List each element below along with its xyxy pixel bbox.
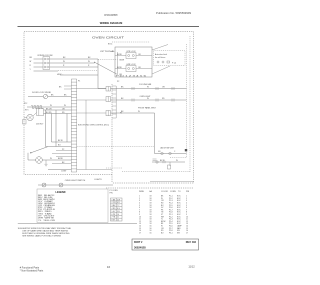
svg-text:LIGHTS: LIGHTS xyxy=(94,179,102,181)
svg-text:OVEN CIRCUIT: OVEN CIRCUIT xyxy=(92,35,124,39)
svg-text:W: W xyxy=(30,61,32,63)
svg-text:BK/W: BK/W xyxy=(117,67,122,69)
svg-text:BK/W: BK/W xyxy=(120,59,125,61)
svg-text:OVEN LIGHT SWITCH: OVEN LIGHT SWITCH xyxy=(65,180,86,182)
svg-text:P1: P1 xyxy=(120,113,122,115)
svg-text:PART #: PART # xyxy=(134,241,143,244)
svg-text:P1: P1 xyxy=(78,81,80,83)
svg-text:LWR LOCK: LWR LOCK xyxy=(126,64,136,66)
svg-text:DLB RLY: DLB RLY xyxy=(36,124,44,126)
svg-text:W: W xyxy=(138,111,140,113)
svg-text:BK/W: BK/W xyxy=(58,158,63,160)
svg-text:RY1: RY1 xyxy=(25,110,28,112)
svg-text:LEGEND: LEGEND xyxy=(56,191,66,194)
svg-text:P3-1: P3-1 xyxy=(169,232,173,234)
svg-text:5 W: 5 W xyxy=(117,199,120,201)
svg-text:W: W xyxy=(63,61,65,63)
svg-text:8 VT: 8 VT xyxy=(112,220,116,222)
svg-text:W: W xyxy=(50,105,52,107)
svg-text:INTERLOCK SW: INTERLOCK SW xyxy=(38,55,53,57)
svg-text:BK W: BK W xyxy=(58,140,63,142)
svg-text:OPTIONAL: OPTIONAL xyxy=(100,50,115,53)
svg-text:UPR LOCK: UPR LOCK xyxy=(126,51,136,53)
svg-text:EOC: EOC xyxy=(108,44,113,46)
svg-text:WIRING DIAGRAM: WIRING DIAGRAM xyxy=(100,21,123,25)
svg-text:DOOR LOCK SW BK: DOOR LOCK SW BK xyxy=(32,92,52,94)
svg-text:YL YELLOW: YL YELLOW xyxy=(38,220,55,222)
svg-text:LATCH SW UNIT: LATCH SW UNIT xyxy=(160,147,175,150)
svg-text:30024028: 30024028 xyxy=(134,245,146,249)
svg-text:12: 12 xyxy=(117,220,119,222)
svg-text:W: W xyxy=(147,98,149,100)
svg-text:11/12: 11/12 xyxy=(188,264,195,268)
svg-text:11: 11 xyxy=(117,217,119,219)
svg-text:WH WHITE: WH WHITE xyxy=(38,217,55,219)
svg-text:OVEN LIGHT: OVEN LIGHT xyxy=(140,96,152,98)
svg-text:SEE WIRING LABEL FOR EXACT WIR: SEE WIRING LABEL FOR EXACT WIRING xyxy=(22,235,61,238)
svg-text:COOLING FAN: COOLING FAN xyxy=(139,83,152,86)
svg-text:CONN: CONN xyxy=(170,191,176,193)
svg-text:BK OR: BK OR xyxy=(46,108,52,110)
svg-text:BK W: BK W xyxy=(160,160,165,162)
svg-text:P12: P12 xyxy=(24,103,27,105)
svg-text:COLOR: COLOR xyxy=(161,191,168,193)
svg-text:W: W xyxy=(147,87,149,89)
svg-text:17: 17 xyxy=(186,232,188,234)
svg-text:Publication No. 5995599999: Publication No. 5995599999 xyxy=(156,11,192,15)
svg-text:P2: P2 xyxy=(62,149,64,151)
svg-text:WIRE: WIRE xyxy=(139,191,145,193)
svg-text:W: W xyxy=(88,61,90,63)
svg-text:P2: P2 xyxy=(117,81,119,83)
svg-text:FPMC3085PF: FPMC3085PF xyxy=(104,13,118,17)
svg-text:W: W xyxy=(176,160,178,162)
svg-text:ELECTRONIC OVEN CONTROL (EOC): ELECTRONIC OVEN CONTROL (EOC) xyxy=(78,124,109,126)
svg-text:BK/W: BK/W xyxy=(117,54,122,56)
svg-text:17: 17 xyxy=(139,232,141,234)
svg-text:for self clean: for self clean xyxy=(155,57,165,59)
svg-text:W: W xyxy=(64,105,66,107)
svg-text:16: 16 xyxy=(107,265,111,269)
svg-text:CONV: CONV xyxy=(61,171,67,173)
svg-text:16: 16 xyxy=(150,232,152,234)
svg-text:REV: 302: REV: 302 xyxy=(186,241,197,244)
svg-text:W: W xyxy=(50,158,52,160)
svg-text:10: 10 xyxy=(117,214,119,216)
svg-text:SW: SW xyxy=(177,232,180,234)
svg-text:FRONT PANEL VENT: FRONT PANEL VENT xyxy=(138,106,157,109)
svg-text:P 1,4: P 1,4 xyxy=(172,63,176,65)
svg-text:Auto door latch: Auto door latch xyxy=(155,53,167,56)
svg-text:* Non-Illustrated Parts: * Non-Illustrated Parts xyxy=(20,270,44,273)
